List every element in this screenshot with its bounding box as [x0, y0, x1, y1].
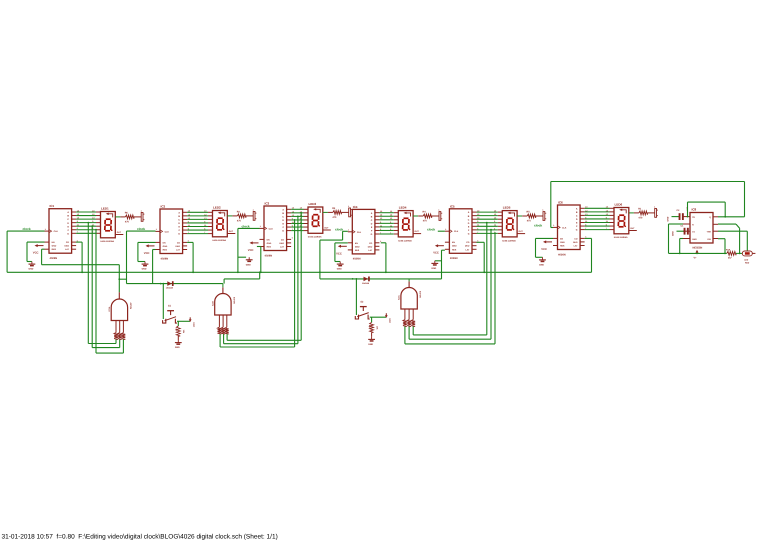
pin numbers IC2/display	[156, 210, 207, 243]
svg-text:RES: RES	[163, 249, 168, 252]
svg-text:470: 470	[237, 220, 242, 223]
svg-text:clock: clock	[242, 224, 250, 228]
status bar text	[2, 534, 278, 541]
connector pin JP2	[253, 208, 257, 220]
svg-text:5: 5	[292, 237, 293, 240]
svg-text:CLK: CLK	[165, 230, 170, 233]
svg-text:1: 1	[253, 208, 254, 211]
svg-text:GND: GND	[452, 245, 457, 248]
display LED2 pin stubs	[208, 212, 213, 233]
gate1 input resistors	[114, 321, 125, 340]
pin numbers IC4/display	[348, 210, 392, 243]
svg-text:1: 1	[156, 228, 157, 231]
svg-text:4026N: 4026N	[161, 257, 169, 260]
svg-text:CLK: CLK	[454, 230, 459, 233]
IC3 4026 counter body	[264, 202, 287, 258]
VCC supply arrow stage 3	[248, 241, 259, 252]
diode D1	[166, 281, 174, 289]
555 timer IC8 body	[690, 208, 713, 250]
IC8 pin stubs	[683, 217, 718, 239]
display LED5 OUT pin	[517, 230, 525, 233]
svg-text:G: G	[67, 232, 69, 235]
display LED6 OUT pin	[629, 227, 637, 230]
svg-text:CO: CO	[66, 241, 70, 244]
svg-text:SA56-11SRWA: SA56-11SRWA	[502, 239, 516, 242]
wire: stage6 gnd branch	[536, 238, 554, 257]
svg-text:IC2: IC2	[161, 205, 166, 209]
svg-text:SA56-11SRWA: SA56-11SRWA	[308, 236, 322, 239]
svg-text:1: 1	[348, 229, 349, 232]
wire: reset rail with D1	[127, 283, 223, 285]
resistor R4 470	[413, 211, 439, 223]
7-segment display LED2	[212, 206, 227, 243]
switch S2	[355, 279, 357, 315]
svg-text:G: G	[282, 230, 284, 233]
svg-text:SA56-11SRWA: SA56-11SRWA	[212, 239, 226, 242]
svg-text:4026N: 4026N	[450, 257, 458, 260]
svg-text:4026N: 4026N	[265, 254, 273, 257]
svg-text:4073N: 4073N	[419, 291, 422, 298]
svg-text:DEO: DEO	[64, 245, 69, 248]
svg-text:GND: GND	[431, 267, 436, 270]
svg-text:1: 1	[141, 209, 142, 212]
svg-text:SA56-11SRWA: SA56-11SRWA	[100, 240, 114, 243]
net label clock (stage5)	[427, 227, 435, 231]
svg-text:clock: clock	[137, 227, 145, 231]
display LED4 pin stubs	[394, 213, 399, 234]
resistor R1A	[726, 249, 742, 260]
svg-text:1: 1	[45, 228, 46, 231]
svg-text:1N4148: 1N4148	[166, 287, 174, 290]
connector pin JP5	[542, 208, 546, 220]
7-segment display LED4	[398, 206, 413, 243]
wire: stage2 gnd branch	[138, 242, 156, 261]
wire: 555 OUT to top rail	[718, 216, 745, 218]
svg-text:EN: EN	[452, 241, 455, 244]
svg-text:VCC: VCC	[144, 252, 150, 255]
wire: stage1 reset pin down	[42, 249, 45, 265]
wire: 555 top loop	[688, 202, 726, 217]
svg-text:IC6: IC6	[558, 201, 563, 205]
wire: stage2 right loop	[187, 242, 193, 272]
net label clock (stage6)	[534, 224, 542, 228]
wire: stage1 clock input	[7, 230, 44, 232]
svg-text:IC2A: IC2A	[108, 306, 111, 311]
VCC supply arrow stage 2	[144, 244, 155, 255]
wire: 555 pin to LED top	[718, 231, 747, 251]
wire: stage6 clock	[551, 227, 553, 229]
wire: S1 to resistor and VCC	[177, 321, 190, 326]
svg-text:G: G	[178, 233, 180, 236]
svg-text:CO: CO	[177, 241, 181, 244]
IC1 4026 counter body	[49, 204, 72, 260]
7-segment display LED5	[502, 206, 517, 243]
svg-text:SA56-11SRWA: SA56-11SRWA	[614, 236, 628, 239]
7-segment display LED3	[308, 202, 323, 239]
gate2 input resistors	[218, 315, 229, 334]
svg-text:LED: LED	[744, 259, 749, 262]
VCC supply arrow stage 1	[33, 244, 44, 255]
capacitor C1	[677, 224, 689, 234]
svg-text:clock: clock	[23, 227, 31, 231]
wire: 555 bottom rail	[669, 252, 727, 254]
display LED5 pin stubs	[498, 212, 503, 233]
svg-text:31-01-2018 10:57 f=0.80 F:\E: 31-01-2018 10:57 f=0.80 F:\Editing video…	[2, 534, 278, 541]
switch S1	[162, 284, 164, 319]
svg-text:G: G	[468, 233, 470, 236]
ground symbol S2	[368, 337, 375, 346]
wire: top feedback rail	[551, 182, 745, 228]
svg-text:470: 470	[332, 216, 337, 219]
wire: 555 THR loop	[669, 224, 684, 253]
wire: stage5 taps to gate3	[413, 223, 487, 335]
svg-text:DEO: DEO	[279, 242, 284, 245]
net label clock (stage4)	[335, 228, 343, 232]
7-segment display LED1	[100, 207, 115, 244]
ground symbol stage2	[142, 262, 149, 271]
svg-text:RES: RES	[267, 246, 272, 249]
svg-text:GND: GND	[666, 216, 669, 221]
connector pin JP1	[141, 209, 145, 221]
wire: stage1 left vertical to rail	[6, 231, 8, 272]
wire: stage1 gnd branch	[27, 242, 45, 261]
wire: stage3 gnd branch	[238, 256, 246, 258]
svg-text:IC2B: IC2B	[212, 301, 215, 306]
svg-text:4026N: 4026N	[50, 257, 58, 260]
wire: gate1 input 2	[92, 226, 120, 348]
segment wires IC2 to display	[187, 212, 208, 233]
pin numbers IC6/display	[553, 206, 608, 239]
wire: stage4 gnd branch	[335, 243, 348, 262]
svg-text:SA56-11SRWA: SA56-11SRWA	[398, 239, 412, 242]
svg-text:VCC: VCC	[433, 252, 439, 255]
7-segment display LED6	[614, 203, 629, 240]
VCC supply arrow stage 5	[433, 244, 444, 255]
svg-text:GND: GND	[246, 263, 251, 266]
wire: gate1 node to reset rail	[119, 231, 126, 284]
svg-text:LED5: LED5	[503, 206, 511, 210]
wire: stage5 gnd branch	[435, 260, 442, 262]
svg-text:IC3: IC3	[265, 202, 270, 206]
svg-text:IC5: IC5	[450, 204, 455, 208]
wire: stage2 clock	[127, 230, 156, 232]
IC2 4026 counter body	[160, 205, 183, 261]
svg-text:GND: GND	[337, 268, 342, 271]
svg-text:RED: RED	[745, 261, 750, 264]
capacitor C2	[672, 207, 689, 220]
svg-text:RES: RES	[52, 248, 57, 251]
display LED6 pin stubs	[610, 208, 615, 229]
display LED1 pin stubs	[96, 212, 101, 233]
wire: 555 GND pin drop	[680, 239, 683, 254]
IC3 pin stubs	[260, 209, 292, 246]
wire: 555 pin diagonal branch	[718, 224, 740, 253]
svg-text:VCC: VCC	[248, 249, 254, 252]
svg-text:CO: CO	[574, 237, 578, 240]
svg-text:RES: RES	[355, 249, 360, 252]
svg-text:GND: GND	[52, 245, 57, 248]
ground symbol stage6	[539, 257, 546, 266]
svg-text:CLK: CLK	[269, 227, 274, 230]
svg-text:VCC: VCC	[388, 318, 391, 323]
segment wires IC1 to display	[76, 212, 96, 233]
ground symbol stage4	[337, 262, 344, 271]
net label GND (C1)	[671, 231, 674, 236]
IC5 pin stubs	[445, 212, 477, 249]
wire: gate2 output to rail patch	[224, 272, 260, 283]
svg-text:RES: RES	[560, 245, 565, 248]
wire: stage3 reset pin down	[257, 247, 261, 273]
VCC pin S2	[385, 313, 391, 323]
svg-text:EN: EN	[163, 241, 166, 244]
svg-text:GND: GND	[539, 264, 544, 267]
svg-text:1: 1	[438, 208, 439, 211]
svg-text:LED2: LED2	[213, 206, 221, 210]
svg-text:1: 1	[553, 224, 554, 227]
segment wires IC4 to display	[379, 213, 393, 234]
net label clock (stage1)	[23, 227, 31, 231]
svg-text:1: 1	[445, 228, 446, 231]
svg-text:GND: GND	[355, 245, 360, 248]
ground symbol stage1	[29, 262, 36, 271]
wire: gate2 input stubs	[220, 334, 227, 347]
resistor R3 470	[323, 207, 349, 219]
svg-text:EN: EN	[267, 238, 270, 241]
svg-text:IC1: IC1	[50, 204, 55, 208]
svg-text:470: 470	[527, 220, 532, 223]
resistor R5 470	[517, 211, 543, 223]
wire: stage5 right loop	[477, 242, 485, 272]
wire: gate1 input 3	[96, 230, 123, 354]
svg-text:VCC: VCC	[541, 248, 547, 251]
segment wires IC3 to display	[291, 209, 303, 230]
connector pin JP4	[438, 208, 442, 220]
VCC supply arrow stage 6	[541, 240, 552, 251]
svg-text:GND: GND	[142, 268, 147, 271]
display LED3 OUT pin	[323, 227, 331, 230]
ground symbol S1	[175, 340, 182, 349]
AND gate IC2B (gate2)	[212, 284, 236, 315]
wire: stage4 right loop	[381, 243, 386, 272]
net label clock (stage3)	[242, 224, 250, 228]
svg-text:LED6: LED6	[615, 203, 623, 207]
svg-text:IC2C: IC2C	[398, 295, 401, 300]
AND gate IC2A (gate1)	[108, 292, 132, 320]
display LED4 OUT pin	[413, 230, 421, 233]
IC6 pin stubs	[553, 208, 585, 245]
IC1 pin stubs	[45, 212, 77, 249]
svg-text:4073N: 4073N	[232, 297, 235, 304]
svg-text:IC4: IC4	[353, 205, 358, 209]
pin numbers IC3/display	[260, 207, 302, 240]
svg-text:470: 470	[125, 221, 130, 224]
svg-text:1: 1	[654, 205, 655, 208]
svg-text:GND: GND	[29, 268, 34, 271]
AND gate IC2C (gate3)	[398, 279, 422, 309]
resistor R6 470	[115, 212, 141, 224]
display LED2 OUT pin	[227, 230, 235, 233]
svg-text:THR: THR	[707, 231, 712, 234]
svg-text:G: G	[576, 229, 578, 232]
wire: stage4 clock	[320, 231, 348, 240]
LED LED7 5mm red	[742, 251, 755, 264]
connector pin JP6	[654, 205, 658, 217]
svg-text:VCC: VCC	[33, 252, 39, 255]
svg-text:clock: clock	[534, 224, 542, 228]
segment wires IC6 to display	[585, 208, 610, 229]
IC4 pin stubs	[348, 213, 380, 250]
svg-text:clock: clock	[335, 228, 343, 232]
IC2 pin stubs	[156, 212, 188, 249]
resistor R2 470	[227, 211, 253, 223]
svg-text:GND: GND	[163, 245, 168, 248]
display LED3 pin stubs	[304, 209, 309, 230]
wire: gate1 input 1	[88, 223, 116, 344]
svg-text:VCC: VCC	[192, 322, 195, 327]
net label GND (C2)	[666, 216, 669, 221]
svg-text:CO: CO	[369, 242, 373, 245]
svg-text:LED3: LED3	[309, 202, 317, 206]
svg-text:CO: CO	[281, 238, 285, 241]
junction dot gate1 output	[118, 278, 120, 280]
svg-text:CO: CO	[466, 241, 470, 244]
wire: stage3 clock from rail	[238, 228, 260, 272]
svg-text:CLK: CLK	[562, 226, 567, 229]
svg-text:GND: GND	[368, 343, 373, 346]
svg-text:LED4: LED4	[399, 206, 407, 210]
svg-text:DEO: DEO	[465, 245, 470, 248]
wire: main ground rail	[7, 271, 591, 273]
wire: stage6 right loop	[585, 238, 592, 272]
VCC supply arrow stage 4	[336, 245, 347, 256]
svg-text:GND: GND	[267, 242, 272, 245]
wire: gate3 reset rail with D2	[320, 240, 445, 279]
svg-text:IC8: IC8	[692, 208, 697, 212]
display LED1 OUT pin	[115, 231, 123, 234]
svg-text:4026N: 4026N	[558, 253, 566, 256]
svg-text:4073N: 4073N	[129, 303, 132, 310]
resistor R1 470	[629, 208, 655, 220]
svg-text:G: G	[371, 233, 373, 236]
svg-text:470: 470	[638, 217, 643, 220]
svg-text:R1A: R1A	[726, 249, 731, 252]
svg-text:470: 470	[423, 220, 428, 223]
diode D2	[362, 277, 370, 285]
svg-text:clock: clock	[427, 227, 435, 231]
pin numbers IC5/display	[445, 210, 496, 243]
wire: stage2 reset pin down	[153, 250, 156, 284]
svg-text:EN: EN	[52, 241, 55, 244]
resistor R8 10k	[368, 322, 379, 336]
svg-text:RES: RES	[452, 248, 457, 251]
svg-text:GND: GND	[692, 238, 697, 241]
svg-text:GND: GND	[671, 231, 674, 236]
V+ supply pin	[694, 250, 699, 260]
svg-text:LED1: LED1	[101, 207, 109, 211]
IC6 4026 counter body	[558, 201, 581, 257]
wire: gate3 input stubs	[405, 326, 413, 344]
IC4 4026 counter body	[352, 205, 375, 261]
svg-text:DEO: DEO	[573, 241, 578, 244]
svg-text:GND: GND	[560, 241, 565, 244]
ground symbol stage3	[246, 257, 253, 266]
gate3 input resistors	[403, 309, 415, 326]
svg-text:EN: EN	[560, 237, 563, 240]
svg-text:1: 1	[260, 225, 261, 228]
resistor R7 10k	[175, 326, 186, 340]
net label clock (stage2)	[137, 227, 145, 231]
wire: stage3 taps to gate2	[227, 213, 301, 340]
svg-text:EN: EN	[355, 242, 358, 245]
wire: S2 to resistor and VCC	[370, 317, 387, 322]
svg-text:GND: GND	[175, 346, 180, 349]
VCC pin S1	[189, 317, 195, 327]
wire: horizontal to gate1 output node	[42, 265, 120, 293]
svg-text:1: 1	[348, 205, 349, 208]
svg-text:DEO: DEO	[368, 245, 373, 248]
segment wires IC5 to display	[477, 212, 498, 233]
svg-text:DEO: DEO	[175, 245, 180, 248]
wire: 555 DIS pin drop	[718, 239, 725, 254]
svg-text:1: 1	[542, 208, 543, 211]
ground symbol stage5	[431, 261, 438, 270]
svg-text:1N4148: 1N4148	[362, 282, 370, 285]
wire: stage1 right loop	[76, 242, 82, 272]
svg-text:NE555N: NE555N	[693, 247, 703, 250]
pin numbers IC1/display	[45, 209, 95, 242]
svg-text:VCC: VCC	[336, 252, 342, 255]
connector pin JP3	[348, 205, 352, 217]
svg-text:CLK: CLK	[54, 230, 59, 233]
svg-text:CLK: CLK	[357, 231, 362, 234]
svg-text:4026N: 4026N	[353, 258, 361, 261]
wire: stage5 clock	[438, 230, 445, 232]
IC5 4026 counter body	[449, 204, 472, 260]
